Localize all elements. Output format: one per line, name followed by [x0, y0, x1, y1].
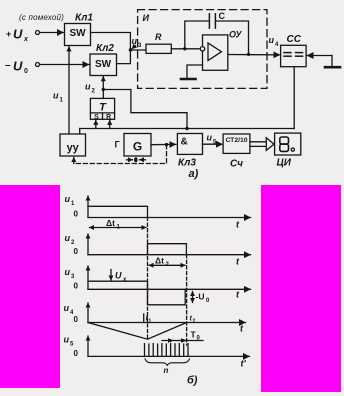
svg-text:SW: SW	[95, 59, 112, 70]
svg-text:3: 3	[71, 274, 75, 280]
gate & Кл3	[177, 134, 202, 169]
svg-text:5: 5	[70, 342, 74, 348]
bus wire	[80, 128, 295, 130]
svg-text:t': t'	[241, 359, 247, 369]
arrow into R input	[109, 120, 111, 128]
svg-text:СС: СС	[287, 34, 302, 45]
wire SW1 output to node u3	[91, 33, 131, 50]
marker T0	[162, 330, 203, 343]
ground right	[325, 66, 340, 69]
node u2	[102, 88, 105, 91]
generator Г	[115, 134, 152, 157]
wire op-amp output u4 to CC	[228, 35, 280, 55]
svg-text:u: u	[53, 91, 59, 101]
svg-text:x: x	[23, 36, 29, 43]
node u3	[129, 36, 146, 52]
svg-text:И: И	[143, 13, 150, 23]
svg-text:ЦИ: ЦИ	[277, 158, 292, 169]
svg-text:2: 2	[193, 319, 196, 325]
svg-text:n: n	[164, 366, 169, 375]
ground op-amp	[181, 65, 203, 79]
bus arrow counter to indicator	[250, 138, 274, 151]
svg-text:u: u	[65, 233, 71, 243]
node bus junction	[185, 127, 188, 130]
svg-text:u: u	[207, 133, 213, 143]
wire riser УУ to bus	[79, 129, 81, 135]
marker Δt2	[149, 256, 185, 269]
svg-text:(с помехой): (с помехой)	[19, 13, 64, 22]
marker -U0	[193, 292, 211, 305]
svg-text:+: +	[6, 29, 11, 39]
svg-text:0: 0	[206, 298, 210, 304]
dashed feedback wire to УУ	[75, 145, 167, 164]
svg-text:1: 1	[60, 98, 64, 104]
quartz trim symbol	[127, 157, 146, 162]
svg-text:u: u	[269, 35, 275, 45]
svg-text:Кл3: Кл3	[178, 158, 196, 169]
svg-text:SW: SW	[69, 28, 86, 39]
tick t2	[190, 316, 196, 325]
wire CC right to ground	[307, 56, 332, 67]
counter СТ2/10 Сч	[223, 134, 250, 170]
waveform u1 trace	[88, 206, 148, 217]
svg-text:0: 0	[74, 210, 79, 219]
wire u1 control	[53, 47, 69, 134]
wire SW2 output to node u3	[117, 51, 131, 64]
svg-text:2: 2	[92, 89, 96, 95]
svg-text:0: 0	[74, 349, 79, 358]
marker Ux	[111, 270, 127, 284]
waveform u3 axes	[65, 266, 251, 300]
arrow into S input	[95, 120, 97, 128]
input terminal -U0	[5, 59, 89, 76]
svg-text:&: &	[181, 137, 188, 148]
tick t1	[144, 314, 152, 325]
wire u2 trigger output	[85, 77, 103, 99]
svg-text:-U: -U	[196, 292, 205, 302]
waveform u5 pulse burst	[145, 343, 189, 356]
waveform u2 axes	[65, 233, 251, 267]
trigger T	[90, 98, 114, 120]
node feedback output	[247, 53, 250, 56]
node G output	[165, 143, 168, 146]
svg-text:R: R	[106, 114, 111, 121]
svg-text:u: u	[65, 194, 71, 204]
svg-text:0: 0	[74, 247, 79, 256]
svg-text:С: С	[219, 11, 226, 21]
switch SW2 Кл2	[90, 43, 117, 76]
wire u5 gate to counter	[203, 133, 223, 146]
svg-text:0: 0	[74, 282, 79, 291]
svg-text:–: –	[5, 60, 11, 71]
svg-text:u: u	[132, 36, 138, 46]
svg-text:Δt: Δt	[106, 218, 115, 228]
wire feedback right	[216, 21, 249, 53]
dashed transition line 1	[147, 218, 149, 340]
waveform u5 axes	[64, 335, 250, 369]
svg-text:t: t	[236, 257, 240, 267]
magenta right block	[261, 185, 341, 392]
svg-text:t: t	[240, 324, 244, 334]
svg-text:Г: Г	[115, 140, 120, 150]
svg-text:Сч: Сч	[230, 159, 243, 170]
svg-text:t: t	[236, 220, 240, 230]
svg-text:уу: уу	[67, 142, 80, 154]
svg-text:1: 1	[149, 319, 152, 325]
svg-text:0: 0	[74, 315, 79, 324]
input terminal +Ux	[6, 27, 64, 44]
marker Δt1	[90, 218, 147, 231]
svg-text:u: u	[85, 82, 91, 92]
wire CC output down to bus	[293, 67, 295, 129]
svg-text:2: 2	[71, 240, 75, 246]
svg-text:R: R	[155, 32, 162, 42]
waveform u1 axes	[65, 194, 251, 230]
svg-text:Кл1: Кл1	[75, 13, 93, 24]
comparator CC	[281, 34, 307, 67]
wire R to op-amp input	[171, 48, 200, 50]
waveform u4 axes	[64, 303, 246, 334]
svg-text:Кл2: Кл2	[96, 43, 114, 54]
waveform u4 triangle trace	[88, 323, 187, 340]
waveform u3 trace	[88, 281, 185, 305]
svg-text:u: u	[65, 267, 71, 277]
svg-text:u: u	[64, 335, 70, 345]
svg-text:t: t	[236, 290, 240, 300]
svg-text:S: S	[94, 114, 99, 121]
svg-text:G: G	[133, 140, 142, 154]
svg-text:U: U	[115, 271, 122, 281]
wire u2 elbow to bus	[103, 90, 187, 129]
op-amp U1 ОУ	[200, 30, 242, 71]
wire G output to gate	[151, 143, 176, 145]
svg-text:u: u	[64, 303, 70, 313]
control unit УУ	[60, 134, 86, 156]
svg-text:0: 0	[24, 68, 28, 75]
svg-text:4: 4	[275, 42, 279, 48]
svg-text:СТ2/10: СТ2/10	[225, 137, 247, 144]
svg-text:ОУ: ОУ	[229, 30, 242, 40]
svg-text:а): а)	[189, 168, 199, 180]
resistor R1	[146, 32, 171, 53]
svg-text:U: U	[13, 59, 23, 74]
indicator ЦИ	[275, 133, 301, 168]
switch SW1 Кл1	[65, 13, 94, 46]
svg-text:Δt: Δt	[155, 256, 164, 266]
brace n	[145, 359, 190, 375]
svg-text:3: 3	[138, 43, 142, 49]
wire feedback left	[185, 21, 209, 49]
svg-text:1: 1	[71, 201, 75, 207]
svg-text:б): б)	[187, 375, 198, 387]
svg-text:U: U	[13, 27, 23, 42]
waveform u2 trace	[148, 244, 187, 255]
svg-text:x: x	[122, 277, 127, 283]
magenta left block	[0, 185, 60, 388]
capacitor C1	[209, 11, 225, 28]
arrow into УУ bottom	[73, 157, 75, 163]
dashed transition line 2	[186, 255, 188, 345]
node feedback input	[183, 47, 186, 50]
dashed block И (integrator)	[138, 10, 267, 89]
